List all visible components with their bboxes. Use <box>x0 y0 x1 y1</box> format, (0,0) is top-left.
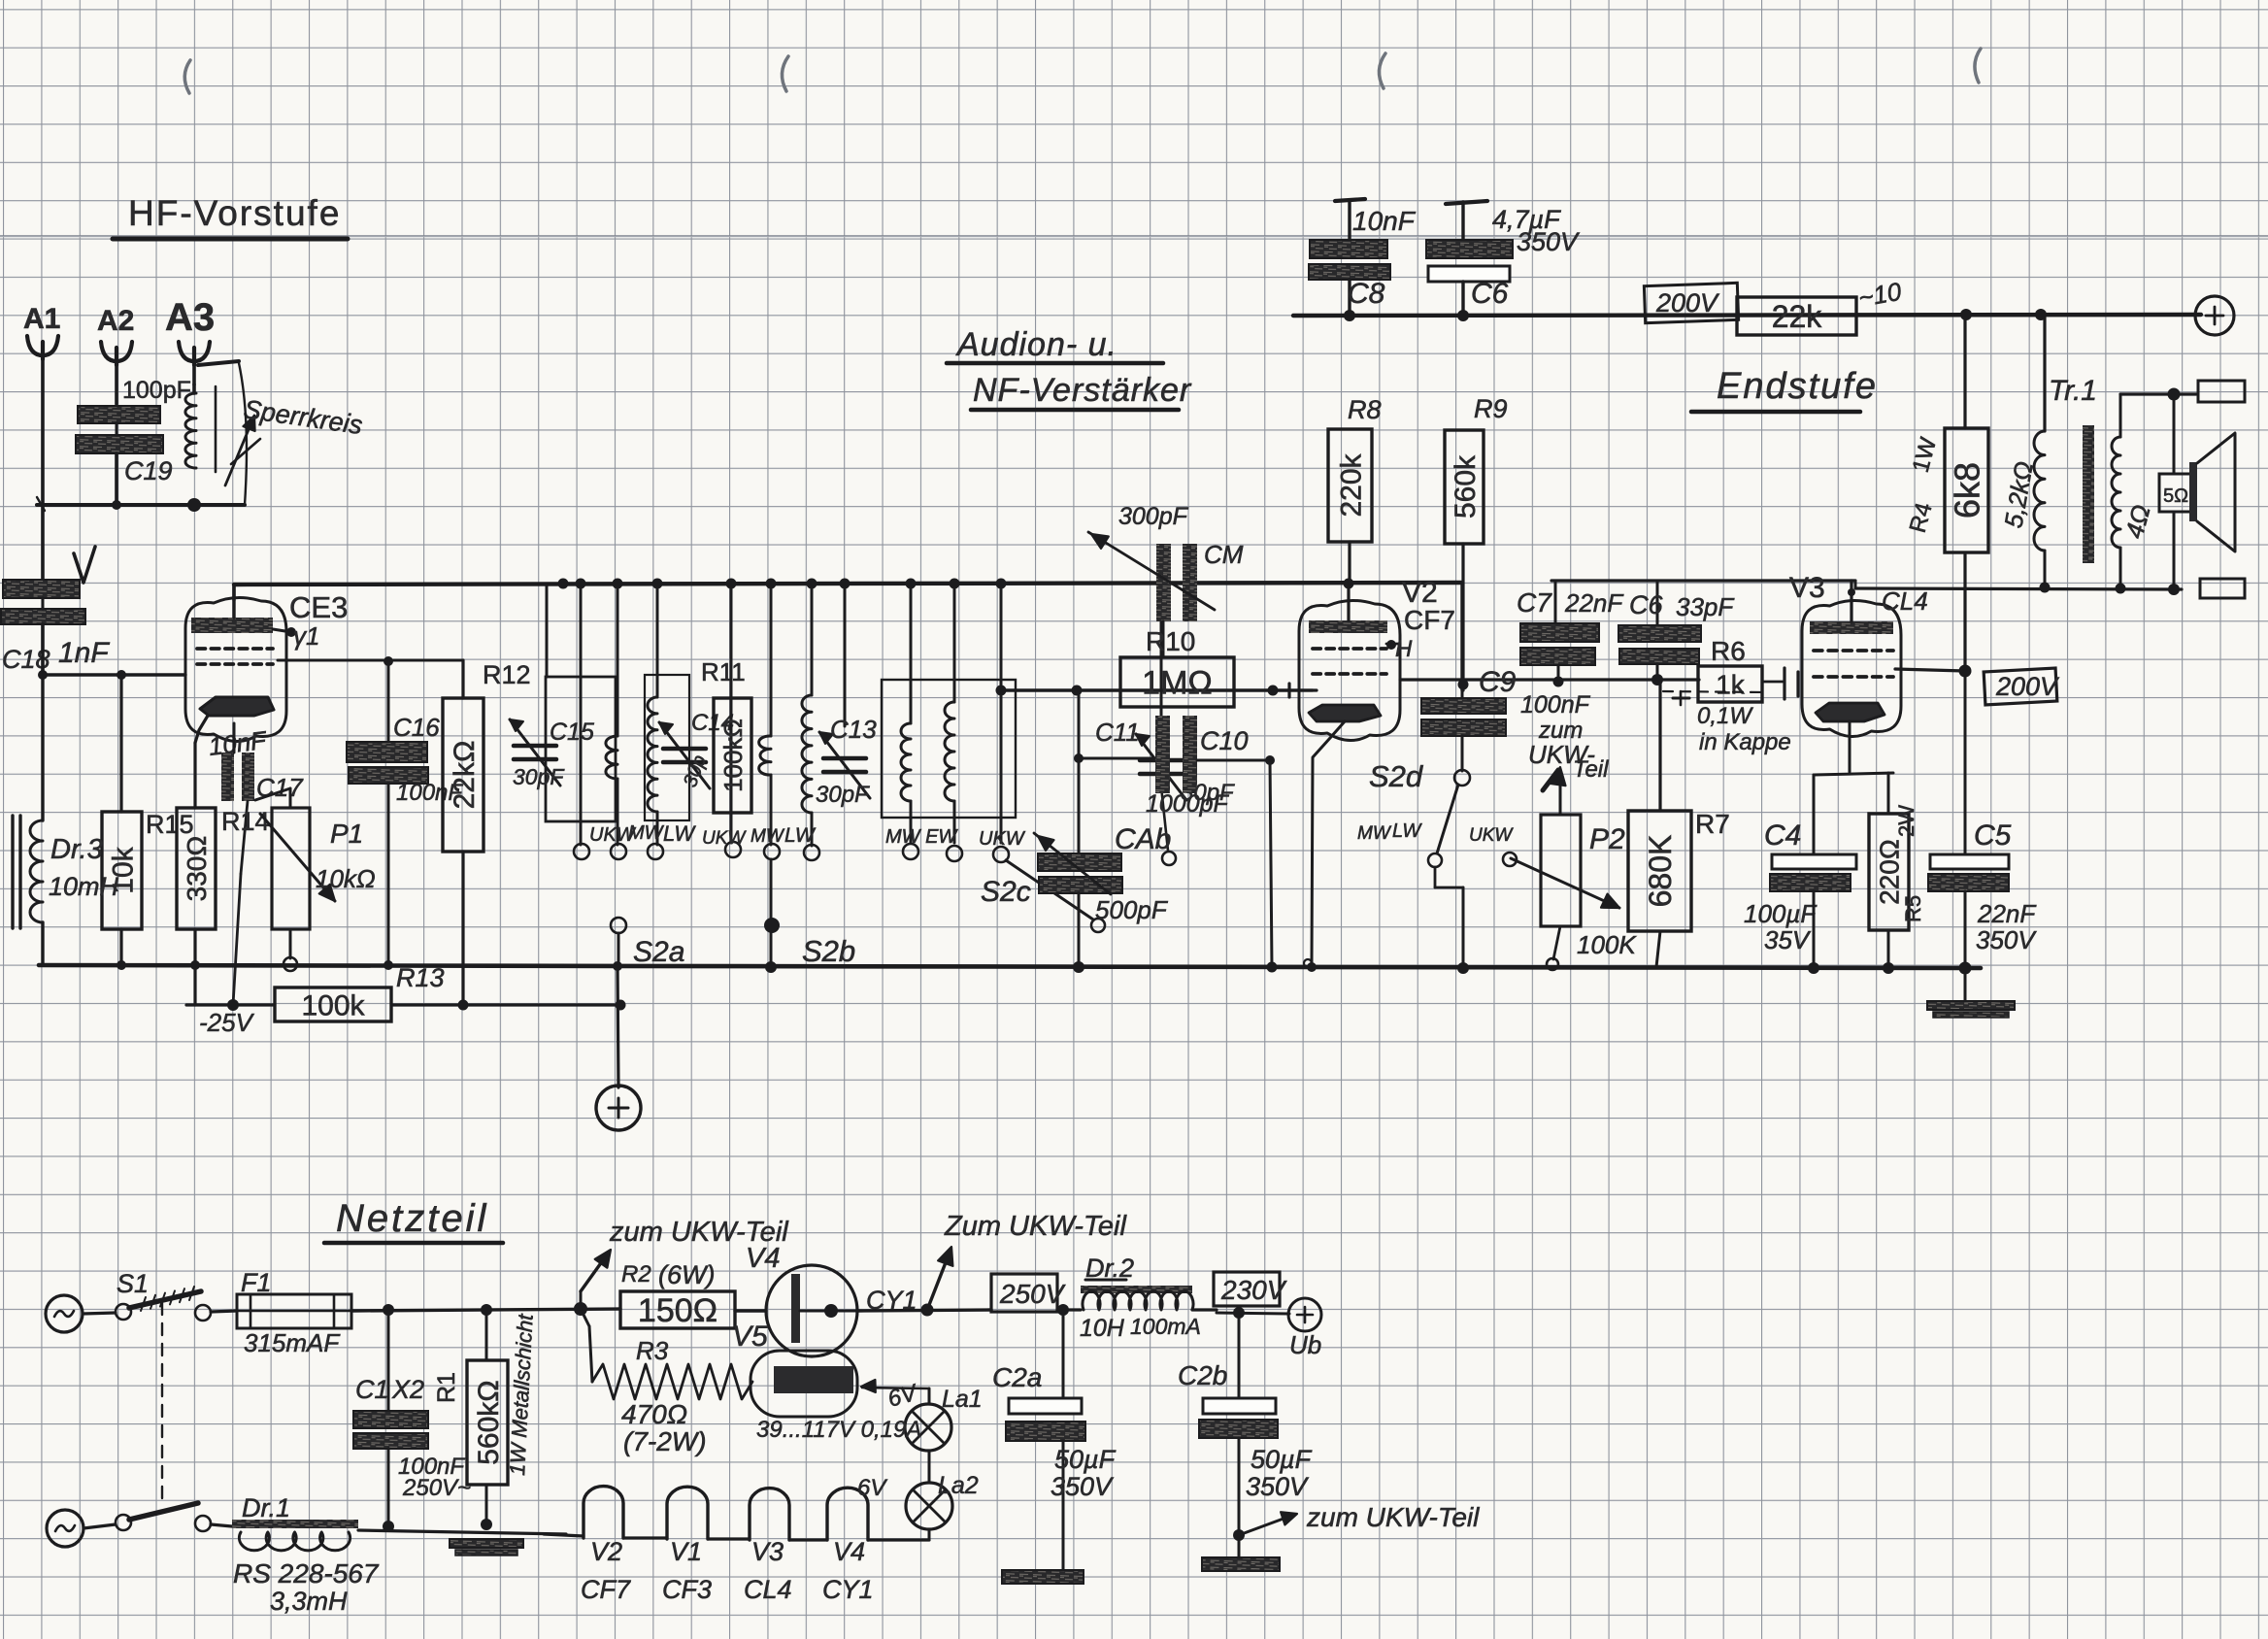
ground R1 <box>450 1539 523 1548</box>
arrow zum UKW-Teil left <box>580 1291 583 1309</box>
wire C10 to bottom bus <box>1270 760 1272 967</box>
wire N1 to S1 <box>83 1313 116 1314</box>
svg-text:Dr.3: Dr.3 <box>50 834 103 865</box>
svg-text:A3: A3 <box>165 296 215 339</box>
wire LW-B line <box>811 583 814 695</box>
svg-text:315mAF: 315mAF <box>244 1328 341 1357</box>
arrow zum UKW-Teil bottom <box>1239 1516 1291 1535</box>
wire MW-A line <box>617 585 619 736</box>
wire V2 grid lead <box>1289 684 1313 697</box>
svg-text:100nF: 100nF <box>1520 691 1591 719</box>
wire R13 to plus terminal line <box>391 1003 620 1006</box>
wire 250V to Dr2 <box>1057 1308 1081 1311</box>
svg-text:10H: 10H <box>1080 1315 1125 1342</box>
wire LW-A line <box>656 585 659 697</box>
wire Dr1 to heater row <box>358 1530 566 1534</box>
svg-text:C16: C16 <box>393 713 440 742</box>
terminal N2 mains <box>47 1510 83 1547</box>
heater chain V2 <box>544 1534 584 1536</box>
svg-text:220Ω: 220Ω <box>1875 839 1905 905</box>
tube V2 CF7 <box>1299 600 1400 740</box>
svg-text:CAb: CAb <box>1115 823 1171 855</box>
svg-text:S2c: S2c <box>981 876 1031 908</box>
svg-text:V3: V3 <box>1789 572 1825 604</box>
svg-text:350V: 350V <box>1051 1472 1115 1501</box>
svg-text:MW: MW <box>628 822 665 844</box>
svg-text:100kΩ: 100kΩ <box>718 719 748 792</box>
svg-text:Audion- u.: Audion- u. <box>955 326 1117 363</box>
trimmer C13 30pF <box>844 585 847 726</box>
svg-text:LW: LW <box>663 821 696 846</box>
wire antenna junction row <box>37 503 245 507</box>
transformer Tr.1 core <box>2083 425 2094 563</box>
wire V3 cathode down <box>1849 721 1851 772</box>
wire grid row right section <box>1289 688 1317 691</box>
tube V3 grid dashes <box>1814 649 1822 652</box>
svg-text:33pF: 33pF <box>1676 592 1735 621</box>
capacitor C7 22nF <box>1554 581 1557 623</box>
wire A1 down to C18 <box>41 505 45 581</box>
svg-text:350V: 350V <box>1246 1472 1310 1501</box>
svg-text:250V: 250V <box>999 1279 1066 1309</box>
svg-text:V5: V5 <box>732 1321 768 1353</box>
lamp La1 <box>928 1451 931 1483</box>
inductor MW-A coil <box>606 736 617 779</box>
potentiometer P2 <box>1541 815 1581 926</box>
tube V2 anode bar <box>1309 620 1387 633</box>
wire gamma1 row <box>278 659 463 662</box>
resistor R8 220k <box>1348 542 1351 583</box>
wire feedback row to V3 grid <box>1854 581 1857 588</box>
svg-text:50µF: 50µF <box>1251 1445 1313 1474</box>
svg-text:C15: C15 <box>550 719 594 746</box>
contact EW-C <box>947 846 962 861</box>
capacitor C16 100nF <box>387 661 390 742</box>
wire C16 to bottom bus <box>387 784 390 965</box>
contact MW-A <box>611 844 626 859</box>
tube V2 grid dashes <box>1313 647 1320 651</box>
svg-text:C11: C11 <box>1095 718 1140 747</box>
tube V3 anode bar <box>1810 621 1893 634</box>
svg-text:100k: 100k <box>301 989 365 1021</box>
paper curl mark 4 <box>1975 49 1981 83</box>
switch S2d <box>1454 770 1470 786</box>
svg-text:1MΩ: 1MΩ <box>1142 665 1213 702</box>
svg-text:C1: C1 <box>355 1375 389 1404</box>
wire UKW-A line <box>580 585 583 845</box>
svg-text:22nF: 22nF <box>1564 588 1624 618</box>
wire F1 to R2 row <box>351 1309 620 1311</box>
svg-text:A2: A2 <box>97 305 134 337</box>
svg-text:200V: 200V <box>1995 672 2060 701</box>
terminal plus anode supply <box>2195 296 2234 335</box>
label 200V boxed right <box>1984 668 2057 705</box>
contact MW-B <box>764 844 780 859</box>
svg-text:X2: X2 <box>391 1375 424 1404</box>
svg-text:10mH: 10mH <box>49 872 119 901</box>
wire 230V to Ub <box>1238 1306 1241 1316</box>
transformer Tr.1 secondary <box>2112 437 2120 548</box>
P1 wiper arrow <box>260 814 335 901</box>
svg-text:MW: MW <box>1357 823 1392 844</box>
capacitor C8 10nF <box>1335 199 1365 201</box>
svg-text:R12: R12 <box>483 660 531 689</box>
ground end main bus <box>1959 962 1972 975</box>
svg-text:39...117V 0,19A: 39...117V 0,19A <box>756 1417 921 1443</box>
svg-text:HF-Vorstufe: HF-Vorstufe <box>128 193 341 233</box>
ground C2a <box>1002 1570 1084 1584</box>
resistor R5 220Ohm 2W <box>1869 814 1909 930</box>
shield box coil set C <box>882 680 1016 818</box>
svg-text:RS 228-567: RS 228-567 <box>233 1558 380 1589</box>
svg-text:P2: P2 <box>1589 823 1625 855</box>
svg-text:C13: C13 <box>830 715 877 744</box>
wire UKW-C line <box>1000 585 1003 690</box>
svg-text:C6: C6 <box>1471 278 1509 310</box>
wire V2 cathode down <box>1312 721 1345 962</box>
inductor LW-A coil <box>648 697 657 812</box>
inductor MW-C coil <box>901 723 911 801</box>
wire main HF bus <box>234 583 1461 585</box>
resistor R13 100k <box>275 987 391 1021</box>
inductor Sperrkreis coil <box>192 385 196 393</box>
trimmer C15 30pF <box>514 744 556 749</box>
wire R12 to R13 row <box>461 852 464 1005</box>
shield box C15 coil set A <box>546 677 616 821</box>
wire MW-B line <box>770 583 773 736</box>
svg-text:C10: C10 <box>1200 726 1249 755</box>
wire A3 stem <box>192 361 196 385</box>
svg-text:230V: 230V <box>1220 1275 1287 1305</box>
svg-text:3,3mH: 3,3mH <box>270 1587 348 1616</box>
switch S2a wiper <box>611 918 626 933</box>
svg-text:500pF: 500pF <box>1095 895 1169 924</box>
svg-text:A1: A1 <box>23 303 60 335</box>
svg-text:V1: V1 <box>670 1537 702 1566</box>
trimmer C14 <box>663 747 706 752</box>
contact LW-A <box>648 844 663 859</box>
grid cap bracket V3 <box>1783 668 1785 699</box>
wire V3 anode out <box>1895 669 1965 671</box>
tube CE3 <box>185 597 286 741</box>
transformer Tr.1 primary <box>2043 315 2046 431</box>
paper curl mark 1 <box>184 60 190 93</box>
svg-text:La1: La1 <box>942 1386 983 1413</box>
resistor R4 6k8 <box>1963 315 1966 428</box>
svg-text:-25V: -25V <box>199 1008 255 1037</box>
node y1 stub <box>273 629 291 632</box>
svg-text:C7: C7 <box>1517 587 1552 618</box>
wire C19 to junction <box>115 453 118 505</box>
wire CE3 top cap to bus <box>232 585 235 600</box>
svg-text:560kΩ: 560kΩ <box>473 1380 505 1464</box>
capacitor C6 33pF <box>1656 581 1659 625</box>
contact below C11 <box>1161 786 1168 851</box>
svg-text:CL4: CL4 <box>744 1575 792 1604</box>
svg-text:560k: 560k <box>1450 454 1482 518</box>
svg-text:C2b: C2b <box>1178 1360 1227 1390</box>
label 230V boxed <box>1214 1272 1280 1306</box>
tube V3 CL4 <box>1802 600 1901 736</box>
svg-text:UKW: UKW <box>979 828 1026 850</box>
paper curl mark 3 <box>1379 53 1385 88</box>
switch S1 lower <box>116 1515 131 1530</box>
svg-text:V3: V3 <box>751 1537 784 1566</box>
svg-text:C5: C5 <box>1974 819 2012 852</box>
svg-text:γ1: γ1 <box>293 621 319 651</box>
resistor 22k <box>1737 297 1856 335</box>
shield box coil LW-A <box>645 675 689 820</box>
svg-text:150Ω: 150Ω <box>638 1292 717 1329</box>
switch S2b wiper <box>770 859 773 919</box>
svg-text:CF3: CF3 <box>662 1575 712 1604</box>
label 250V boxed <box>991 1274 1057 1312</box>
inductor LW-B coil <box>802 695 812 813</box>
svg-text:C4: C4 <box>1764 819 1801 852</box>
lamp La2 <box>928 1529 931 1540</box>
wire R7 bottom to bus <box>1656 931 1660 967</box>
wire bottom HF bus <box>39 965 1981 968</box>
terminal N1 mains <box>46 1295 83 1332</box>
wire N2 to S1 lower <box>83 1524 116 1528</box>
svg-text:30pF: 30pF <box>816 782 870 808</box>
svg-text:22kΩ: 22kΩ <box>449 741 481 810</box>
svg-text:6V: 6V <box>857 1475 887 1501</box>
connector box right <box>2200 579 2245 598</box>
svg-text:S1: S1 <box>117 1269 149 1298</box>
svg-text:CE3: CE3 <box>289 590 348 624</box>
svg-text:30pF: 30pF <box>513 764 565 789</box>
paper curl mark 2 <box>782 56 788 91</box>
resistor R9 560k <box>1461 544 1464 690</box>
wire secondary top to speaker <box>2120 392 2196 395</box>
svg-text:1000pF: 1000pF <box>1146 790 1230 818</box>
svg-text:R6: R6 <box>1711 636 1746 666</box>
svg-text:zum UKW-Teil: zum UKW-Teil <box>1306 1502 1480 1532</box>
svg-text:250V~: 250V~ <box>402 1475 471 1501</box>
wire sperrkreis right branch <box>239 363 247 505</box>
svg-text:10nF: 10nF <box>1352 206 1417 236</box>
svg-text:R5: R5 <box>1901 895 1925 922</box>
inductor EW-C coil <box>945 702 954 801</box>
svg-text:UKW: UKW <box>1469 825 1514 846</box>
svg-text:22nF: 22nF <box>1977 899 2037 928</box>
label 200V boxed <box>1644 283 1738 322</box>
contact UKW-B <box>725 842 741 857</box>
wire V2 top cap <box>1347 583 1350 620</box>
svg-text:CM: CM <box>1204 540 1244 569</box>
contact UKW-A <box>574 844 589 859</box>
terminal Ub plus <box>1288 1298 1321 1331</box>
svg-text:S2d: S2d <box>1369 759 1424 793</box>
tube V2 cathode <box>1309 705 1381 721</box>
wire S1 to F1 <box>211 1311 237 1312</box>
svg-text:680K: 680K <box>1643 835 1678 908</box>
svg-text:200V: 200V <box>1655 288 1720 318</box>
svg-text:CF7: CF7 <box>1404 605 1455 635</box>
wire bus corner down to audion grid row <box>1460 583 1463 690</box>
wire CAb to bottom bus <box>1078 893 1081 967</box>
svg-text:2W: 2W <box>1894 805 1918 837</box>
svg-text:MW EW: MW EW <box>885 826 958 848</box>
svg-text:R3: R3 <box>636 1336 669 1365</box>
inductor MW-B coil <box>759 736 771 775</box>
wire R1 to ground <box>485 1485 488 1524</box>
paper ruled line <box>0 235 2268 237</box>
svg-text:LW: LW <box>784 824 817 847</box>
svg-text:1k: 1k <box>1716 670 1746 700</box>
svg-text:MW: MW <box>750 826 785 847</box>
svg-text:CL4: CL4 <box>1882 586 1928 616</box>
wire A2 stem <box>115 361 118 404</box>
wire V3 top cap <box>1850 581 1852 621</box>
heater chain V1 <box>667 1487 708 1539</box>
trimmer arrow Sperrkreis <box>225 416 254 485</box>
svg-text:R2: R2 <box>621 1261 651 1288</box>
svg-text:R11: R11 <box>701 657 746 686</box>
capacitor C18 1nF <box>3 580 80 598</box>
heater chain V3 <box>750 1488 789 1540</box>
svg-text:100pF: 100pF <box>122 377 191 404</box>
wire coupling top row <box>1551 579 1855 582</box>
svg-text:Ub: Ub <box>1289 1330 1321 1359</box>
capacitor C4 100uF <box>1813 775 1816 854</box>
capacitor C10 1000pF <box>1078 690 1081 758</box>
svg-text:R7: R7 <box>1695 809 1730 839</box>
svg-text:Endstufe: Endstufe <box>1717 366 1878 407</box>
svg-text:LW: LW <box>1392 820 1422 842</box>
svg-text:R8: R8 <box>1348 395 1382 424</box>
svg-text:220k: 220k <box>1335 452 1367 517</box>
svg-text:Dr.1: Dr.1 <box>242 1493 290 1522</box>
wire V4 to 250V row <box>857 1310 991 1311</box>
svg-text:R10: R10 <box>1146 626 1195 656</box>
svg-text:100µF: 100µF <box>1744 899 1818 928</box>
svg-text:100K: 100K <box>1577 930 1637 959</box>
svg-text:35V: 35V <box>1764 925 1812 954</box>
svg-text:La2: La2 <box>938 1472 979 1499</box>
R6 dashed 0.1W note <box>1663 691 1767 692</box>
speaker <box>2159 474 2192 512</box>
svg-text:NF-Verstärker: NF-Verstärker <box>973 372 1192 409</box>
svg-text:P1: P1 <box>330 819 363 849</box>
svg-text:300pF: 300pF <box>1118 503 1189 530</box>
svg-text:CY1: CY1 <box>822 1575 874 1604</box>
svg-text:S2a: S2a <box>633 936 684 968</box>
svg-text:H: H <box>1395 636 1413 662</box>
svg-text:350V: 350V <box>1976 925 2037 954</box>
wire speaker bottom <box>2173 512 2176 589</box>
tube CE3 cathode <box>200 697 274 716</box>
trimmer C11 30pF <box>1160 585 1163 748</box>
svg-text:C19: C19 <box>124 456 173 485</box>
wire S1 lower to Dr1 <box>211 1524 232 1526</box>
wire EW-C line <box>953 585 956 702</box>
svg-text:5Ω: 5Ω <box>2163 485 2188 507</box>
svg-text:S2b: S2b <box>802 934 855 968</box>
svg-text:R14: R14 <box>221 807 270 836</box>
svg-text:R15: R15 <box>146 810 194 839</box>
svg-text:330Ω: 330Ω <box>182 836 212 902</box>
arrow zum UKW-Teil mid <box>927 1253 950 1310</box>
connector box top right <box>2198 381 2245 402</box>
capacitor C9 100nF <box>1461 685 1464 698</box>
svg-text:V2: V2 <box>590 1537 622 1566</box>
svg-text:1nF: 1nF <box>58 637 110 669</box>
wire C9 to S2d <box>1461 736 1464 771</box>
svg-text:R9: R9 <box>1474 394 1508 423</box>
heater chain V4 <box>827 1488 868 1540</box>
contact LW-B <box>804 845 819 860</box>
inductor Dr.3 choke <box>11 816 14 928</box>
wire cathode node row <box>1814 773 1893 775</box>
capacitor CAb 500pF <box>1078 690 1081 853</box>
svg-text:C8: C8 <box>1348 278 1385 310</box>
svg-text:UKW: UKW <box>702 828 747 849</box>
svg-text:CF7: CF7 <box>581 1575 631 1604</box>
wire P2 bottom to bus <box>1553 926 1560 959</box>
wire Dr2 to 230V <box>1192 1308 1217 1311</box>
svg-text:V4: V4 <box>833 1537 865 1566</box>
S1 link dashed <box>161 1303 163 1507</box>
svg-text:350V: 350V <box>1517 227 1581 256</box>
wire V5 right with arrow <box>861 1380 876 1392</box>
svg-text:R13: R13 <box>396 963 445 992</box>
tube V3 cathode <box>1816 703 1884 721</box>
svg-text:(6W): (6W) <box>658 1260 715 1289</box>
svg-text:in Kappe: in Kappe <box>1699 729 1791 755</box>
svg-text:Zum UKW-Teil: Zum UKW-Teil <box>944 1211 1127 1242</box>
tube CE3 grid dashes <box>197 647 205 651</box>
tube CE3 anode bar <box>191 618 273 633</box>
svg-text:Tr.1: Tr.1 <box>2049 375 2097 407</box>
wire grid row to tube CE3 <box>43 673 185 676</box>
wire lamps to V5 <box>928 1388 931 1404</box>
switch S2c wiper <box>1006 860 1093 920</box>
wire minus25V row R13 <box>186 1003 275 1006</box>
capacitor C6el 4.7uF <box>1446 201 1487 204</box>
arrow variable mark C18 <box>74 547 95 583</box>
svg-text:Teil: Teil <box>1573 756 1609 783</box>
svg-text:470Ω: 470Ω <box>621 1399 687 1429</box>
svg-text:10kΩ: 10kΩ <box>316 864 376 893</box>
resistor R7 680K <box>1658 680 1661 811</box>
wire P1 bottom to bus <box>289 929 292 958</box>
svg-text:zum UKW-Teil: zum UKW-Teil <box>609 1217 789 1248</box>
svg-text:C2a: C2a <box>992 1362 1042 1392</box>
svg-text:C6: C6 <box>1629 590 1663 619</box>
node H stub <box>1386 643 1398 646</box>
svg-text:(7-2W): (7-2W) <box>623 1426 707 1456</box>
contact UKW-C <box>993 847 1009 862</box>
svg-text:22k: 22k <box>1772 299 1823 334</box>
contact MW-C <box>903 844 918 859</box>
capacitor C5 22nF <box>1930 854 2009 869</box>
svg-text:C9: C9 <box>1479 666 1517 698</box>
svg-text:R1: R1 <box>433 1372 460 1403</box>
svg-text:0,1W: 0,1W <box>1697 703 1753 729</box>
wire A1 stem <box>41 355 45 505</box>
wire MW-C line <box>910 585 913 723</box>
svg-text:100mA: 100mA <box>1130 1314 1201 1339</box>
wire 200V supply bus <box>1293 315 2201 316</box>
svg-text:50µF: 50µF <box>1054 1445 1117 1474</box>
terminal plus circle <box>617 965 618 1087</box>
wire S2d common <box>1434 867 1437 887</box>
wire audion grid row <box>1001 688 1289 692</box>
svg-text:Netzteil: Netzteil <box>336 1197 488 1240</box>
ground C2b <box>1202 1557 1280 1571</box>
